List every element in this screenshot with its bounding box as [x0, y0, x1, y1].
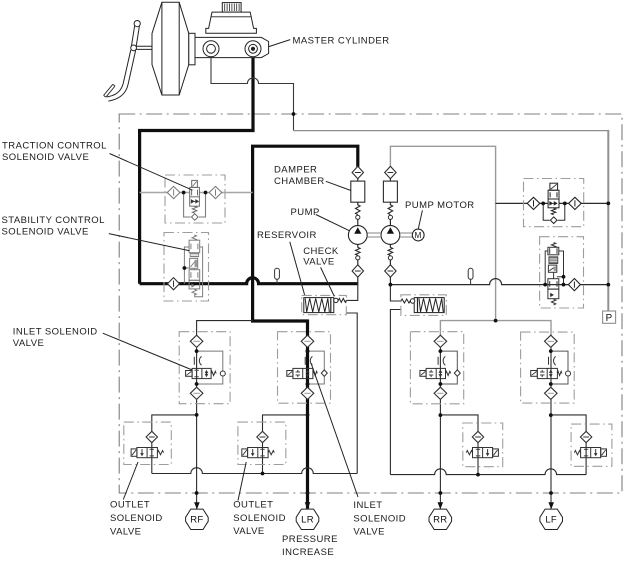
pump outlet spring left: [356, 205, 361, 215]
wire right return riser from reservoir: [390, 310, 401, 475]
svg-text:INLET SOLENOID: INLET SOLENOID: [13, 326, 98, 337]
svg-text:INLET: INLET: [353, 500, 382, 511]
reservoir right piston: [417, 298, 419, 313]
inlet valve LR dash-dot box: [278, 332, 331, 404]
label MASTER CYLINDER: [269, 40, 290, 47]
svg-text:VALVE: VALVE: [110, 526, 141, 537]
node LR boundary crossing: [306, 491, 310, 495]
inlet solenoid valve LR (pressure increase): [287, 335, 328, 399]
outlet valve RR dash-dot box: [463, 423, 503, 467]
wire RR wheel line: [439, 336, 441, 509]
reservoir left piston: [330, 298, 332, 313]
wire LF wheel line: [550, 336, 552, 509]
node LR outlet branch: [306, 413, 310, 417]
svg-text:PUMP MOTOR: PUMP MOTOR: [405, 200, 475, 211]
label INLET SOLENOID VALVE bottom: [311, 363, 406, 538]
svg-text:SOLENOID VALVE: SOLENOID VALVE: [2, 227, 89, 238]
master cylinder fluid reservoir: [206, 12, 257, 33]
svg-text:LR: LR: [301, 515, 314, 526]
damper chamber left: [351, 181, 365, 202]
svg-text:MASTER CYLINDER: MASTER CYLINDER: [293, 36, 390, 47]
stability valve right: [543, 243, 610, 305]
outlet valve LF dash-dot box: [571, 424, 612, 466]
svg-text:TRACTION CONTROL: TRACTION CONTROL: [2, 141, 107, 152]
pump circle right: [381, 226, 400, 245]
node RR boundary crossing: [439, 491, 443, 495]
wire master cylinder primary-port line across top to right circuit: [211, 56, 294, 131]
wire left return riser from reservoir: [346, 313, 357, 474]
damper chamber diamond right: [385, 166, 396, 178]
check valve spring left: [338, 298, 346, 302]
svg-text:RF: RF: [190, 515, 203, 526]
outlet solenoid valve RR: [466, 431, 498, 457]
wire thick pump outlet line (pressure increase path) to LR inlet valve: [253, 146, 358, 508]
wire right pump outlet line to RR/LF inlet feed: [390, 146, 495, 320]
arrow to RF wheel: [194, 502, 200, 509]
wire right stability valve flow line with bump over feed line: [390, 279, 608, 285]
pump outlet valve ball left: [356, 215, 360, 219]
pump inlet check diamond left: [352, 265, 363, 277]
svg-text:OUTLET: OUTLET: [233, 499, 273, 510]
label OUTLET SOLENOID VALVE RF: [110, 462, 163, 537]
label PRESSURE INCREASE: [282, 534, 338, 558]
svg-text:RESERVOIR: RESERVOIR: [257, 230, 317, 241]
node right pump suction junction: [389, 283, 393, 287]
pump outlet spring right: [388, 205, 393, 215]
svg-text:P: P: [606, 313, 613, 324]
wire left traction valve flow line: [140, 192, 253, 194]
label TRACTION CONTROL SOLENOID VALVE: [2, 141, 193, 191]
wheel node RF: [186, 509, 209, 529]
wire right pump suction to reservoir check valve: [390, 285, 401, 301]
svg-text:RR: RR: [433, 515, 447, 526]
svg-text:VALVE: VALVE: [353, 527, 384, 538]
inlet solenoid valve RR: [420, 335, 460, 399]
master cylinder body: [189, 33, 269, 65]
master cylinder reservoir cap: [222, 3, 241, 13]
brake booster: [152, 2, 189, 95]
svg-text:STABILITY CONTROL: STABILITY CONTROL: [2, 215, 105, 226]
node LF boundary crossing: [549, 491, 553, 495]
traction valve left dash-dot box: [165, 175, 225, 223]
label INLET SOLENOID VALVE left: [13, 326, 193, 370]
check valve ball right: [410, 299, 414, 303]
wire RF outlet valve branch: [152, 415, 197, 474]
inlet valve LF dash-dot box: [521, 332, 575, 403]
label PUMP MOTOR: [405, 200, 475, 229]
wire left pump suction to reservoir check valve: [346, 284, 358, 300]
pump inlet spring left: [356, 247, 361, 255]
outlet solenoid valve RF: [131, 431, 164, 457]
svg-text:SOLENOID: SOLENOID: [353, 513, 406, 524]
check valve ball left: [334, 298, 338, 302]
wire right return collector with bumps over RR and LF lines: [390, 469, 586, 475]
node RR outlet return: [476, 473, 480, 477]
reservoir right dash-dot box: [401, 295, 446, 316]
svg-text:DAMPER: DAMPER: [274, 165, 317, 176]
wire RF wheel line: [196, 336, 198, 509]
label STABILITY CONTROL SOLENOID VALVE: [2, 215, 190, 251]
svg-text:SOLENOID: SOLENOID: [110, 513, 163, 524]
brake pedal: [104, 21, 152, 102]
label OUTLET SOLENOID VALVE LR: [233, 462, 286, 537]
wheel node LF: [540, 509, 563, 529]
traction valve right dash-dot box: [524, 179, 584, 227]
wire LF outlet valve branch: [551, 415, 586, 475]
svg-text:VALVE: VALVE: [13, 338, 44, 349]
outlet solenoid valve LR: [242, 431, 274, 457]
damper chamber diamond left: [352, 166, 363, 178]
pump circle left: [348, 226, 367, 245]
stability valve right dash-dot box: [540, 237, 584, 308]
node LR outlet return: [261, 472, 265, 476]
wire LR outlet valve branch: [263, 415, 308, 474]
svg-text:INCREASE: INCREASE: [282, 547, 334, 558]
svg-text:OUTLET: OUTLET: [110, 500, 150, 511]
reservoir right spring: [419, 298, 443, 312]
pump inlet valve ball right: [388, 256, 392, 260]
wheel node LR: [296, 509, 319, 529]
outlet solenoid valve LF: [574, 431, 606, 457]
reservoir left dash-dot box: [302, 295, 347, 314]
node RF boundary crossing: [195, 491, 199, 495]
node RF outlet branch: [195, 413, 199, 417]
arrow to RR wheel: [438, 502, 444, 509]
pump inlet spring right: [388, 247, 393, 255]
arrow to LR wheel: [305, 502, 311, 509]
wire RR/LF inlet feed header: [440, 321, 551, 336]
pump inlet valve ball left: [356, 256, 360, 260]
attenuator right: [468, 268, 473, 284]
wire right pump column: [389, 167, 391, 284]
stability valve left dash-dot box: [164, 233, 209, 302]
arrow to LF wheel: [548, 502, 554, 509]
wire thick stability-valve suction line to pump inlet with crossover bump: [140, 278, 358, 284]
node RR outlet branch: [439, 413, 443, 417]
svg-text:SOLENOID: SOLENOID: [233, 513, 286, 524]
svg-text:M: M: [415, 231, 422, 240]
traction control solenoid valve left: [167, 180, 222, 220]
label PUMP: [291, 207, 350, 231]
stability valve left: [168, 235, 203, 297]
wire left return collector with bumps over RF and LR lines: [152, 468, 357, 474]
pressure sensor P: [603, 311, 616, 323]
inlet solenoid valve LF: [531, 335, 571, 399]
node right feed junction: [494, 319, 498, 323]
svg-text:VALVE: VALVE: [303, 257, 334, 268]
svg-text:PRESSURE: PRESSURE: [282, 534, 338, 545]
svg-text:CHECK: CHECK: [303, 246, 339, 257]
traction control solenoid valve right: [527, 183, 610, 223]
HCU unit dash-dot boundary: [119, 114, 622, 493]
check valve spring right: [401, 299, 410, 303]
outlet valve LR dash-dot box: [238, 422, 286, 464]
svg-text:SOLENOID VALVE: SOLENOID VALVE: [2, 152, 89, 163]
label DAMPER CHAMBER: [274, 165, 351, 191]
node LR inlet top: [306, 349, 310, 353]
label CHECK VALVE: [303, 246, 339, 296]
wire RR outlet valve branch: [440, 415, 478, 475]
pump inlet check diamond right: [385, 265, 396, 277]
pump outlet valve ball right: [388, 215, 392, 219]
pump motor M1: [412, 229, 424, 241]
node LF outlet branch: [549, 413, 553, 417]
attenuator left: [275, 268, 280, 283]
wire left pump column: [357, 167, 359, 284]
svg-text:PUMP: PUMP: [291, 207, 320, 218]
reservoir left piston chamber: [304, 298, 334, 313]
inlet solenoid valve RF: [186, 335, 226, 399]
wheel node RR: [429, 509, 452, 529]
wire RF inlet feed branch: [197, 321, 253, 336]
damper chamber right: [383, 181, 397, 202]
node master line crossing boundary: [292, 112, 296, 116]
reservoir left spring: [305, 298, 329, 312]
master cylinder secondary port: [245, 41, 261, 57]
svg-text:LF: LF: [545, 515, 557, 526]
svg-text:VALVE: VALVE: [233, 526, 264, 537]
inlet valve RR dash-dot box: [410, 332, 463, 404]
outlet valve RF dash-dot box: [124, 422, 172, 464]
wire thick master-cylinder secondary-port line to stability valve: [140, 56, 253, 284]
svg-text:CHAMBER: CHAMBER: [274, 176, 325, 187]
reservoir right piston chamber: [414, 298, 444, 313]
pump drive shaft: [367, 233, 412, 237]
node LR inlet bottom: [306, 382, 310, 386]
inlet valve RF dash-dot box: [179, 332, 230, 404]
label RESERVOIR: [257, 230, 317, 295]
master cylinder primary port: [203, 41, 219, 57]
wire right traction valve flow line: [496, 202, 609, 204]
